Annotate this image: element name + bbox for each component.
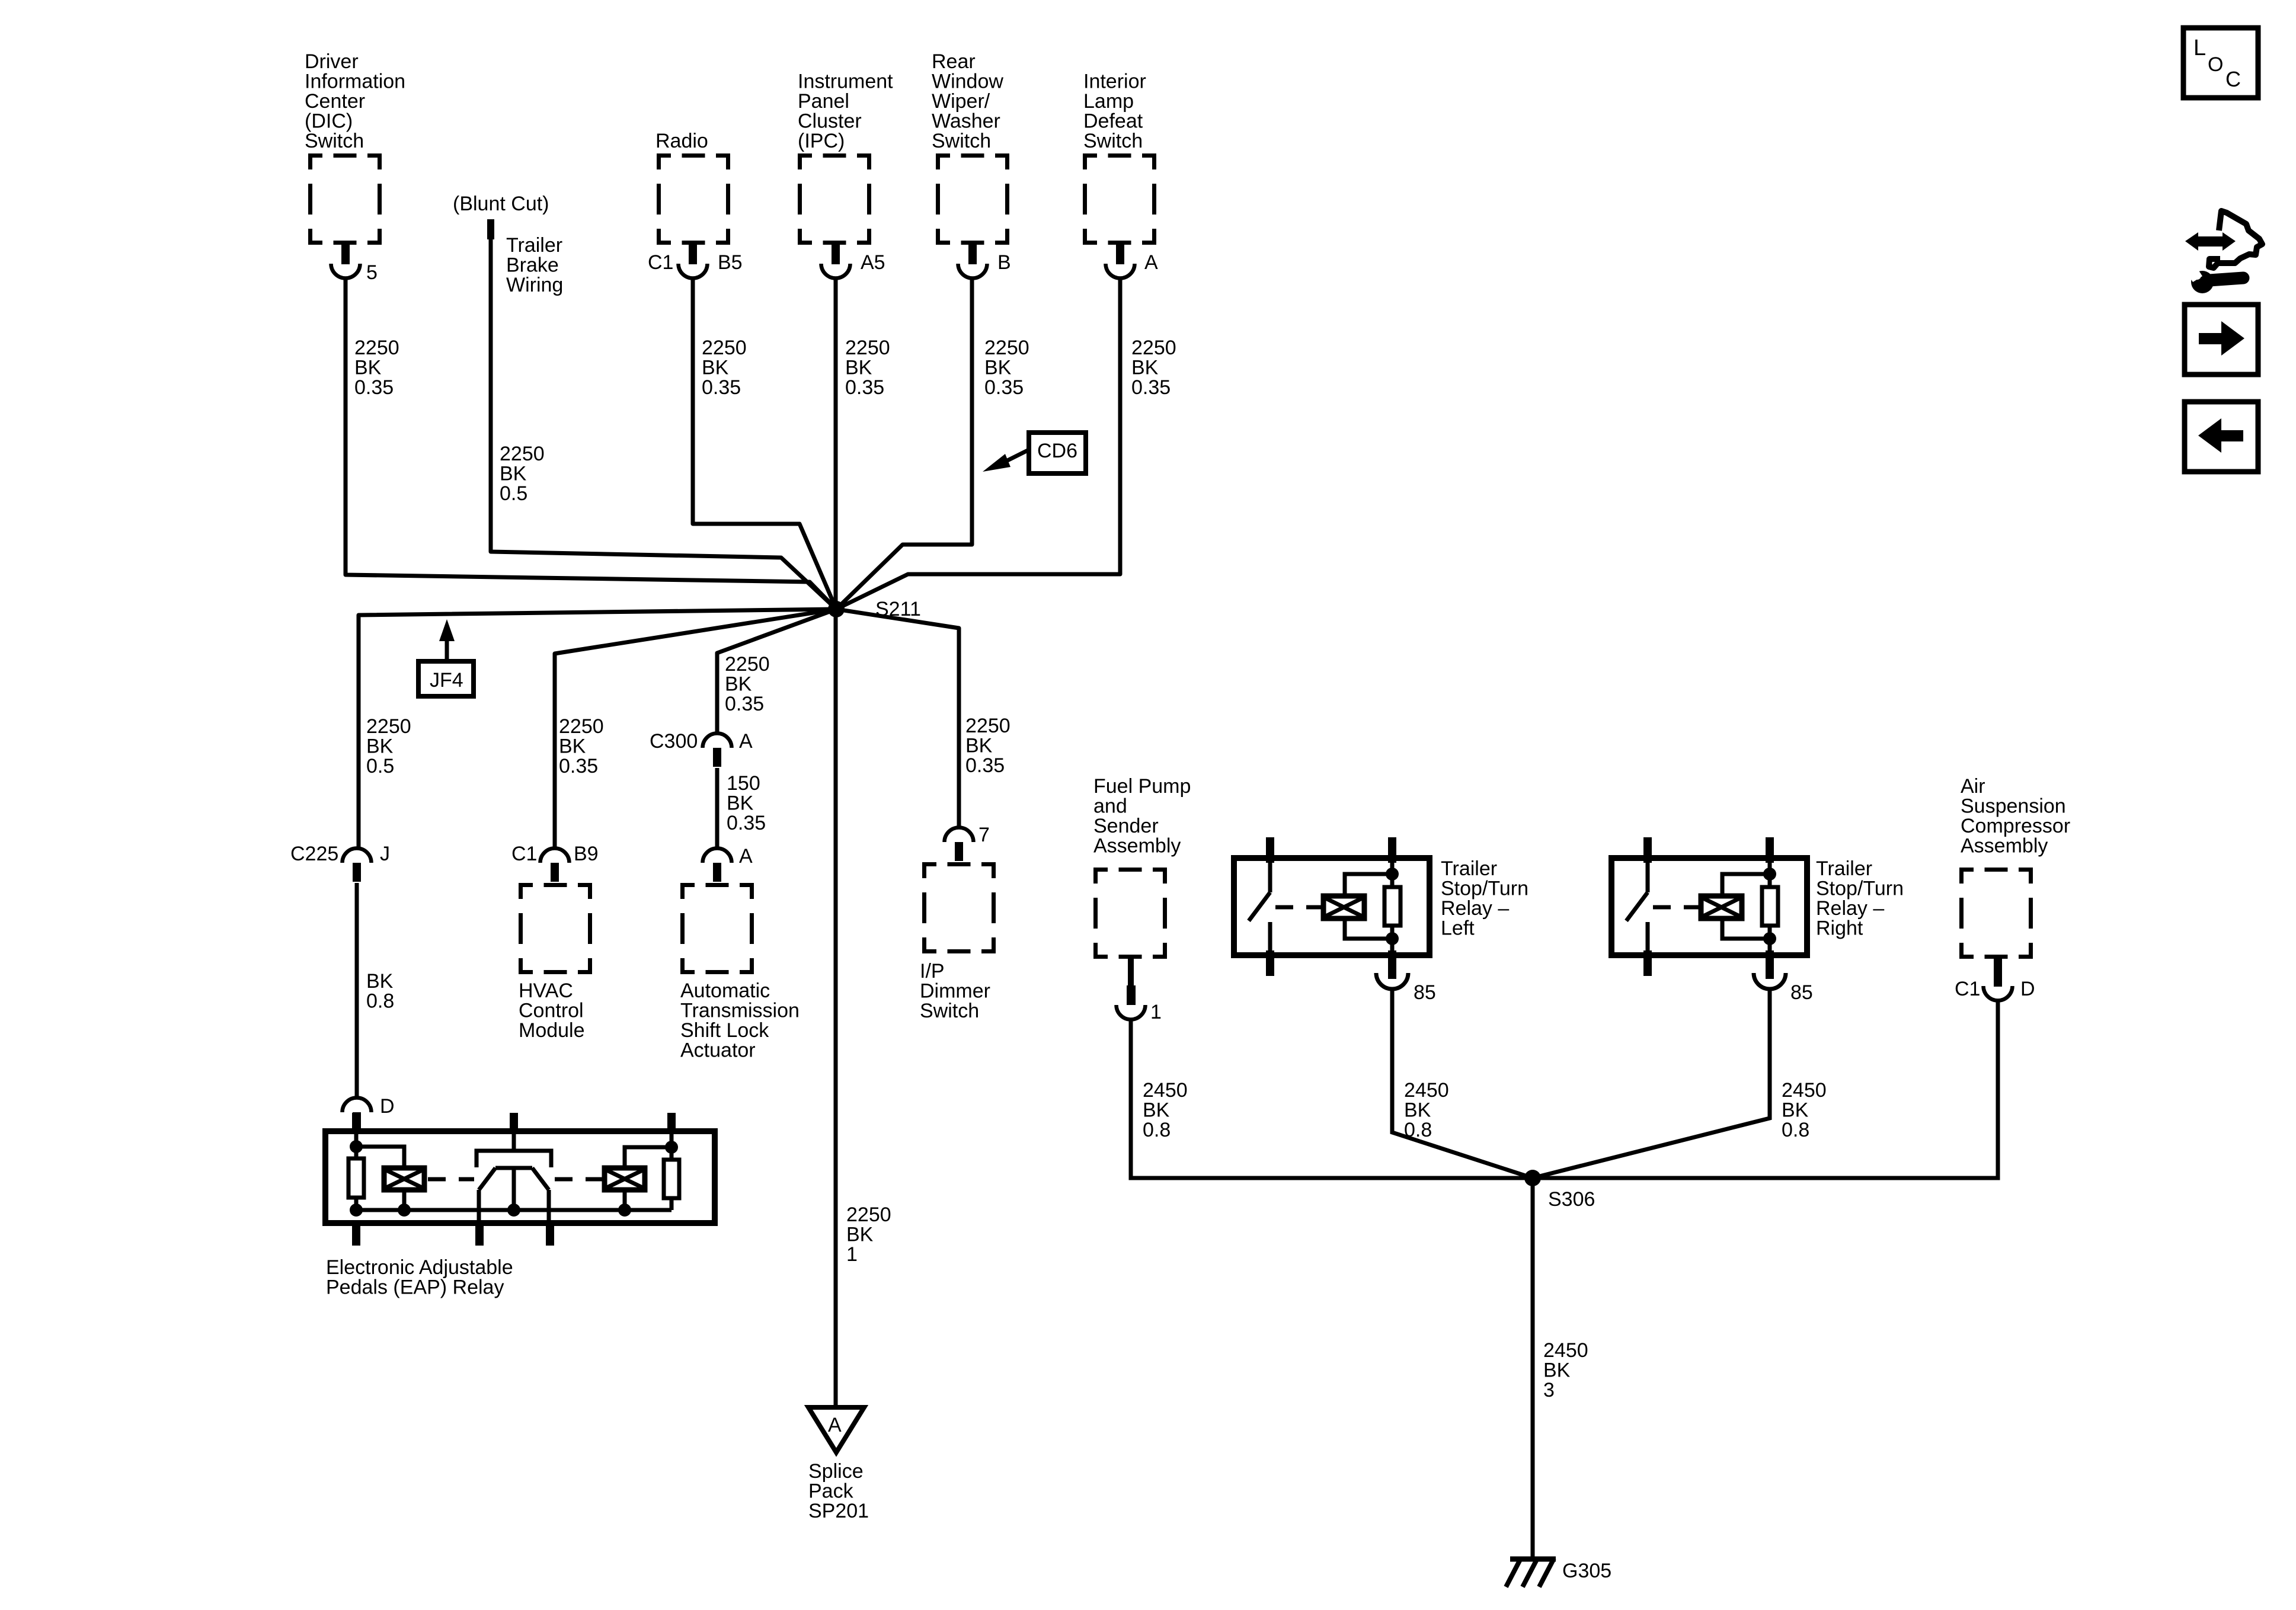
wire 2250 BK 0.35 from splice S211 to HVAC control module [555,609,836,849]
svg-text:B9: B9 [574,843,599,865]
wire 2250 BK 0.35 from IPC A5 through S211 down to splice pack SP201 [834,277,838,1407]
svg-text:Assembly: Assembly [1093,835,1181,857]
connector pin A of interior lamp defeat switch [1106,245,1135,279]
inline connector C300 pin A [703,734,732,767]
svg-text:0.35: 0.35 [702,376,741,399]
svg-text:Cluster: Cluster [798,110,862,133]
connector C1 pin B5 of Radio [679,245,708,279]
connector pin B of wiper/washer switch [958,245,987,279]
svg-text:Driver: Driver [305,50,359,73]
svg-text:HVAC: HVAC [519,980,573,1002]
svg-text:BK: BK [845,357,872,379]
svg-text:Shift Lock: Shift Lock [680,1019,769,1042]
inline connector C225 pin J [343,849,372,882]
ground G305 [1506,1558,1556,1587]
svg-text:85: 85 [1790,981,1813,1004]
svg-text:0.8: 0.8 [1782,1119,1809,1141]
svg-text:Pack: Pack [808,1480,854,1503]
component box: Air Suspension Compressor Assembly [1959,868,2033,959]
forward arrow legend icon [2185,305,2258,375]
wire 2250 BK 0.35 from splice S211 to I/P dimmer switch pin 7 [836,609,959,828]
svg-text:Actuator: Actuator [680,1039,756,1062]
wire BK 0.8 from C225 to EAP relay pin D [355,883,359,1097]
relay coil [1323,896,1364,918]
svg-text:0.8: 0.8 [366,990,394,1013]
svg-text:Trailer: Trailer [1816,857,1872,880]
wire 2250 BK 0.35 from splice S211 to connector C300 pin A [717,609,836,735]
svg-text:BK: BK [984,357,1012,379]
svg-text:2450: 2450 [1782,1079,1827,1102]
svg-text:A: A [739,845,753,868]
svg-text:Left: Left [1441,917,1475,940]
svg-text:and: and [1093,795,1127,818]
splice pack SP201 [808,1407,864,1452]
svg-text:Relay –: Relay – [1816,897,1884,920]
svg-text:J: J [380,843,390,865]
component box: Fuel Pump and Sender Assembly [1093,868,1167,959]
svg-text:C300: C300 [650,730,698,753]
svg-text:Lamp: Lamp [1083,90,1134,113]
svg-text:Instrument: Instrument [798,71,893,93]
splice S211 [828,601,845,617]
svg-text:Wiring: Wiring [506,274,563,296]
svg-text:BK: BK [725,673,752,696]
relay resistor [1390,858,1395,887]
relay box: Electronic Adjustable Pedals (EAP) Relay [325,1113,715,1246]
svg-text:BK: BK [366,970,394,993]
svg-text:I/P: I/P [920,960,945,982]
svg-text:BK: BK [559,735,586,758]
svg-text:0.35: 0.35 [559,755,598,777]
right resistor inside EAP relay [670,1131,674,1160]
connector pin 85 of right relay [1754,973,1786,989]
svg-text:0.35: 0.35 [845,376,884,399]
svg-text:D: D [380,1095,395,1118]
svg-text:Pedals (EAP) Relay: Pedals (EAP) Relay [326,1276,504,1299]
svg-text:(IPC): (IPC) [798,130,845,152]
svg-text:BK: BK [1143,1099,1170,1122]
svg-text:2250: 2250 [702,337,747,359]
relay coil [1701,896,1742,918]
svg-text:BK: BK [366,735,394,758]
connector pin 7 of I/P dimmer switch [945,828,974,862]
svg-text:Suspension: Suspension [1961,795,2066,818]
svg-text:Brake: Brake [506,254,559,277]
svg-text:Assembly: Assembly [1961,835,2048,857]
connector C1 pin B9 of HVAC control module [541,849,570,882]
svg-text:0.35: 0.35 [354,376,394,399]
CD6 callout box with arrow [1029,433,1086,473]
svg-text:BK: BK [1404,1099,1431,1122]
svg-text:85: 85 [1414,981,1436,1004]
wire 2450 BK 0.8 from right relay to splice S306 [1533,988,1770,1178]
svg-text:S306: S306 [1548,1188,1595,1211]
svg-text:L: L [2193,36,2206,60]
svg-text:(DIC): (DIC) [305,110,353,133]
svg-text:Radio: Radio [655,130,708,152]
svg-text:3: 3 [1543,1379,1555,1401]
svg-text:Window: Window [932,71,1003,93]
blunt cut trailer brake wiring stub [487,219,494,239]
svg-text:O: O [2208,53,2223,76]
svg-text:B: B [997,251,1011,274]
svg-text:C225: C225 [290,843,338,865]
back arrow legend icon [2185,402,2258,472]
svg-text:C: C [2225,67,2241,91]
svg-text:2250: 2250 [354,337,399,359]
svg-text:(Blunt Cut): (Blunt Cut) [453,193,549,215]
component box: HVAC Control Module [519,883,592,974]
relay switch contact [1268,858,1272,892]
svg-text:Relay –: Relay – [1441,897,1509,920]
svg-text:0.35: 0.35 [727,812,766,834]
svg-text:A: A [739,730,753,753]
svg-text:2450: 2450 [1404,1079,1449,1102]
svg-text:Splice: Splice [808,1460,864,1483]
svg-text:Electronic Adjustable: Electronic Adjustable [326,1256,513,1279]
connector pin A of shift lock actuator [703,849,732,882]
svg-text:Control: Control [519,1000,584,1022]
svg-text:7: 7 [978,824,990,846]
svg-text:Stop/Turn: Stop/Turn [1816,878,1904,900]
wire 2250 BK 0.35 from interior lamp defeat switch to splice S211 [836,277,1120,609]
component box: Automatic Transmission Shift Lock Actuator [680,883,754,974]
component box: Driver Information Center (DIC) Switch [308,153,382,245]
vehicle data link icon with double arrow and wrench [2185,211,2262,293]
splice S306 [1524,1170,1541,1186]
svg-text:5: 5 [366,261,378,284]
svg-text:JF4: JF4 [430,669,463,692]
svg-text:C1: C1 [1955,978,1980,1000]
connector pin 85 of left relay [1376,973,1408,989]
svg-text:Switch: Switch [1083,130,1143,152]
svg-text:0.35: 0.35 [984,376,1024,399]
svg-text:Switch: Switch [932,130,991,152]
connector pin 1 of fuel pump [1128,959,1134,987]
svg-text:1: 1 [1150,1001,1162,1023]
left coil inside EAP relay [356,1147,404,1168]
dashed actuation line [1275,905,1323,910]
svg-text:150: 150 [727,772,760,795]
relay resistor [1768,858,1772,887]
svg-text:Panel: Panel [798,90,849,113]
component box: I/P Dimmer Switch [922,862,996,953]
svg-text:0.8: 0.8 [1404,1119,1432,1141]
relay box: Trailer Stop/Turn Relay - Left [1234,837,1430,979]
component box: Interior Lamp Defeat Switch [1083,153,1156,245]
svg-text:BK: BK [965,735,993,757]
svg-text:Center: Center [305,90,365,113]
svg-text:C1: C1 [511,843,537,865]
inline connector D at EAP relay [343,1098,372,1132]
dashed actuation line [1653,905,1701,910]
wire 2450 BK 0.8 from fuel pump to splice S306 [1131,1019,1533,1178]
svg-text:BK: BK [1543,1359,1571,1382]
svg-text:Automatic: Automatic [680,980,770,1002]
svg-text:2450: 2450 [1143,1079,1188,1102]
svg-text:BK: BK [727,792,754,815]
svg-text:BK: BK [702,357,729,379]
svg-text:Trailer: Trailer [506,234,562,257]
wire 2250 BK 0.35 from DIC switch pin 5 to splice S211 [346,277,836,609]
wire 2450 BK 0.8 from left relay to splice S306 [1392,988,1533,1178]
svg-text:0.35: 0.35 [965,754,1005,777]
svg-text:0.35: 0.35 [1131,376,1171,399]
wire 2450 BK 3 from S306 to ground G305 [1531,1178,1535,1557]
wire 2250 BK 0.35 from Radio to splice S211 [693,277,836,609]
dashed actuation line right [555,1177,597,1182]
svg-text:2450: 2450 [1543,1339,1588,1362]
svg-text:BK: BK [354,357,382,379]
component box: Rear Window Wiper/Washer Switch [936,153,1009,245]
svg-text:SP201: SP201 [808,1500,869,1522]
JF4 callout box with arrow [418,661,474,696]
svg-text:1: 1 [846,1243,858,1266]
svg-text:Wiper/: Wiper/ [932,90,990,113]
svg-text:A5: A5 [861,251,885,274]
svg-text:D: D [2020,978,2035,1000]
svg-text:A: A [1144,251,1158,274]
svg-text:0.8: 0.8 [1143,1119,1171,1141]
svg-text:Right: Right [1816,917,1863,940]
right coil inside EAP relay [625,1147,671,1168]
svg-text:S211: S211 [875,598,921,620]
left resistor inside EAP relay [354,1131,359,1158]
svg-text:2250: 2250 [846,1204,891,1226]
connector pin 5 of DIC switch [331,245,360,279]
component box: Instrument Panel Cluster (IPC) [798,153,871,245]
svg-text:A: A [828,1414,842,1436]
svg-text:Rear: Rear [932,50,976,73]
svg-text:BK: BK [500,463,527,485]
svg-text:B5: B5 [718,251,743,274]
relay box: Trailer Stop/Turn Relay - Right [1611,837,1807,979]
svg-text:2250: 2250 [1131,337,1176,359]
svg-text:Transmission: Transmission [680,1000,800,1022]
svg-text:0.5: 0.5 [366,755,394,777]
svg-text:Interior: Interior [1083,71,1146,93]
wire 2450 BK 0.8 from air suspension compressor to splice S306 [1533,999,1998,1178]
svg-text:BK: BK [1131,357,1159,379]
svg-text:2250: 2250 [845,337,890,359]
svg-text:CD6: CD6 [1037,440,1077,462]
wire 2250 BK 0.5 from splice S211 to connector C225 pin J [359,609,836,849]
svg-text:Fuel Pump: Fuel Pump [1093,775,1191,798]
svg-text:Information: Information [305,71,405,93]
svg-text:2250: 2250 [559,715,604,738]
svg-text:BK: BK [846,1224,874,1246]
wire 150 BK 0.35 from C300 to shift lock actuator pin A [715,768,720,849]
wire 2250 BK 0.5 from blunt cut to splice S211 [491,238,836,609]
svg-text:2250: 2250 [984,337,1029,359]
svg-text:Dimmer: Dimmer [920,980,990,1003]
center switch of EAP relay [512,1131,516,1150]
svg-text:Sender: Sender [1093,815,1159,837]
component box: Radio [657,153,730,245]
svg-text:2250: 2250 [725,653,770,676]
wire 2250 BK 0.35 from wiper/washer switch to splice S211 [836,277,972,609]
dashed actuation line left [428,1177,474,1182]
svg-text:2250: 2250 [965,715,1011,737]
svg-text:Switch: Switch [920,1000,979,1022]
svg-text:Compressor: Compressor [1961,815,2070,837]
svg-text:Trailer: Trailer [1441,857,1497,880]
svg-text:BK: BK [1782,1099,1809,1122]
connector C1 pin D of air suspension compressor [1994,958,2002,971]
LOC legend box icon [2183,28,2258,98]
svg-text:2250: 2250 [500,443,545,465]
svg-text:Washer: Washer [932,110,1000,133]
relay switch contact [1646,858,1650,892]
svg-text:2250: 2250 [366,715,411,738]
svg-text:0.5: 0.5 [500,482,527,505]
svg-text:Air: Air [1961,775,1985,798]
svg-text:Module: Module [519,1019,585,1042]
svg-text:0.35: 0.35 [725,693,764,715]
svg-text:C1: C1 [648,251,673,274]
svg-text:G305: G305 [1562,1560,1611,1582]
svg-text:Stop/Turn: Stop/Turn [1441,878,1528,900]
svg-text:Defeat: Defeat [1083,110,1143,133]
connector pin A5 of IPC [821,245,850,279]
svg-text:Switch: Switch [305,130,364,152]
